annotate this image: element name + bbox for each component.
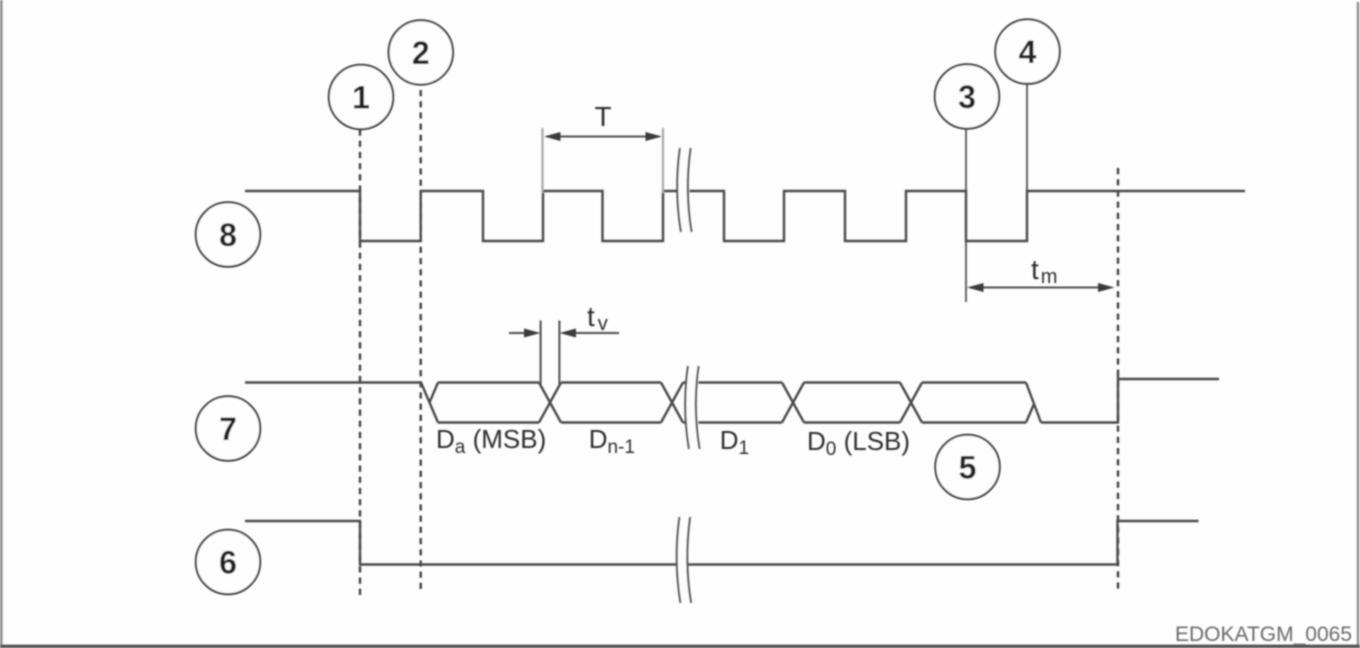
- dashed line 1 (from circle 1): [359, 130, 361, 596]
- svg-text:D0 (LSB): D0 (LSB): [807, 426, 910, 460]
- signal 7 right rise tick: [1117, 374, 1119, 424]
- bus segment Dn-1 rails: [561, 383, 661, 423]
- frame left border: [0, 0, 3, 648]
- circle 3: [935, 64, 999, 128]
- signal 7 data bus: leading single line: [245, 381, 421, 383]
- svg-text:2: 2: [412, 35, 430, 71]
- break mark on signal 6 arcs: [677, 517, 691, 603]
- signal 7 right high line: [1118, 378, 1219, 380]
- leader line circle 4: [1026, 84, 1028, 191]
- bus opening transition: [421, 383, 438, 423]
- dashed line right (at tm end): [1117, 168, 1119, 593]
- break mark on data bus (white band): [685, 366, 699, 449]
- svg-text:D1: D1: [720, 425, 749, 459]
- frame right border: [1357, 2, 1359, 648]
- T dimension extension lines: [543, 128, 664, 193]
- svg-text:1: 1: [352, 80, 370, 116]
- svg-text:6: 6: [219, 545, 237, 581]
- break mark on data bus arcs: [685, 366, 699, 449]
- tv tick lines: [541, 321, 560, 385]
- svg-text:EDOKATGM_0065: EDOKATGM_0065: [1175, 623, 1352, 646]
- svg-text:Da (MSB): Da (MSB): [436, 424, 546, 458]
- svg-text:5: 5: [959, 450, 977, 486]
- circle 4: [995, 19, 1059, 83]
- circle 2: [389, 20, 453, 84]
- T dimension arrow: [547, 136, 659, 138]
- svg-text:8: 8: [219, 217, 237, 253]
- svg-text:Dn-1: Dn-1: [589, 424, 635, 458]
- leader line circle 3 / tm left extension: [965, 129, 967, 302]
- bus segment Da rails: [438, 383, 539, 423]
- circle 6: [196, 530, 260, 594]
- crossover X2: [661, 383, 683, 423]
- crossover X4: [900, 383, 922, 423]
- bus closing transition: [1026, 383, 1041, 423]
- svg-text:tv: tv: [587, 301, 608, 335]
- svg-text:T: T: [594, 101, 611, 132]
- signal 8 clock waveform: [245, 191, 1245, 241]
- trailing low single line: [1041, 421, 1118, 423]
- svg-text:7: 7: [219, 411, 237, 447]
- break mark on clock arcs: [677, 148, 691, 232]
- circle 8: [196, 202, 260, 266]
- crossover X3: [782, 383, 804, 423]
- svg-text:3: 3: [958, 79, 976, 115]
- svg-text:4: 4: [1019, 34, 1037, 70]
- bus last segment rails: [922, 383, 1026, 423]
- circle 5: [935, 435, 999, 499]
- break mark on signal 6 (white band): [677, 517, 691, 603]
- svg-text:tm: tm: [1031, 254, 1057, 288]
- tv arrows: [509, 332, 619, 334]
- bus segment D0 rails: [804, 383, 900, 423]
- tm dimension arrow: [970, 287, 1111, 289]
- crossover X1: [539, 383, 561, 423]
- signal 6 waveform: [245, 521, 1199, 565]
- circle 1: [329, 65, 393, 129]
- dashed line 2 (from circle 2): [420, 90, 422, 594]
- bus segment D1 rails: [683, 383, 782, 423]
- frame bottom border: [0, 645, 1360, 648]
- break mark on clock (white band): [677, 148, 691, 232]
- circle 7: [196, 396, 260, 460]
